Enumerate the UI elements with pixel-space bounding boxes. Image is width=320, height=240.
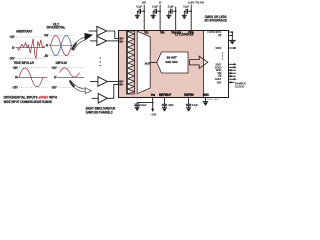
svg-text:–5V: –5V: [43, 54, 49, 58]
op-amp buffer A4: [92, 84, 119, 103]
svg-text:2.2µF: 2.2µF: [168, 6, 174, 9]
ground: [162, 107, 167, 109]
ground: [166, 14, 171, 16]
svg-text:IN0⁻: IN0⁻: [119, 40, 123, 43]
svg-text:47µF: 47µF: [168, 104, 174, 107]
svg-text:SAR ADC: SAR ADC: [166, 60, 179, 64]
svg-text:LVDS/CMOS: LVDS/CMOS: [207, 30, 221, 34]
swoosh arrow (bottom, waveforms to buffers): [69, 80, 92, 94]
svg-text:+10V: +10V: [9, 35, 15, 39]
wire A1 out to IN0+: [107, 31, 119, 38]
waveform panel FULLY DIFFERENTIAL: [43, 23, 74, 58]
svg-text:MUX: MUX: [145, 61, 151, 65]
supply 10V / pin VCC / capacitor 0.1uF: [135, 1, 149, 35]
pin SDO0: [216, 46, 237, 50]
svg-text:IN7⁻: IN7⁻: [119, 84, 123, 87]
svg-text:CNV: CNV: [217, 80, 222, 84]
wire A2 out to IN0-: [107, 40, 119, 42]
ground: [135, 14, 140, 16]
ADC block 18-BIT SAR ADC: [157, 52, 188, 73]
svg-text:ARBITRARY: ARBITRARY: [16, 29, 33, 33]
op-amp buffer A1: [89, 26, 119, 38]
svg-text:TRUE BIPOLAR: TRUE BIPOLAR: [14, 61, 35, 65]
data bus block arrow: [190, 56, 208, 68]
svg-text:SDO0: SDO0: [216, 46, 222, 50]
svg-text:0.1µF: 0.1µF: [136, 6, 142, 9]
pin SDO7: [216, 62, 237, 66]
T/H array strip: [127, 31, 135, 94]
svg-text:0.1µF: 0.1µF: [192, 104, 198, 107]
pin REFIN / capacitor 0.1uF: [184, 93, 198, 112]
svg-text:+5V: +5V: [44, 34, 49, 38]
svg-text:–10V: –10V: [9, 56, 16, 60]
dots SDO0..SDO7: [222, 52, 223, 59]
svg-text:UNIPOLAR: UNIPOLAR: [56, 61, 68, 65]
waveform panel ARBITRARY: [9, 29, 45, 60]
caption: eight simultaneous sampling channels: [86, 107, 116, 115]
pin SCKO: [215, 65, 237, 69]
svg-text:IN0⁺: IN0⁺: [119, 38, 123, 41]
pin BUSY: [215, 77, 236, 81]
ground: [229, 39, 236, 41]
svg-text:I/O INTERFACE: I/O INTERFACE: [205, 19, 227, 23]
channel dots: [100, 57, 101, 66]
svg-text:REFIN: REFIN: [184, 93, 194, 97]
svg-text:18-BIT: 18-BIT: [166, 56, 177, 60]
svg-text:GND: GND: [203, 93, 210, 97]
wire A3 out to IN7+: [107, 81, 118, 83]
ground: [151, 14, 156, 16]
pin VSS / capacitor 0.1uF / supply -10V: [134, 93, 156, 117]
caption: differential inputs: [4, 95, 58, 104]
op-amp buffer A3: [90, 77, 119, 87]
mux: [137, 31, 150, 93]
waveform panel UNIPOLAR: [51, 61, 85, 90]
ground: [186, 107, 191, 109]
supply 5V / pin VDD / capacitor 0.1uF: [151, 1, 165, 35]
wire mux to ADC: [150, 61, 157, 63]
svg-text:WIDE INPUT COMMON MODE RANGE: WIDE INPUT COMMON MODE RANGE: [4, 100, 52, 104]
label CMOS OR LVDS I/O INTERFACE: [205, 15, 227, 22]
svg-text:DIFFERENTIAL: DIFFERENTIAL: [47, 25, 66, 29]
IC U1 LTC2348-18 body: [119, 31, 229, 98]
svg-text:EIGHT SIMULTANEOUS: EIGHT SIMULTANEOUS: [86, 107, 116, 111]
waveform panel TRUE BIPOLAR: [12, 61, 48, 90]
pin GND / ground: [203, 93, 210, 106]
svg-text:CLOCK: CLOCK: [235, 84, 244, 88]
svg-text:0.1µF: 0.1µF: [152, 6, 158, 9]
svg-text:DIFFERENTIAL INPUTS ±VREF WITH: DIFFERENTIAL INPUTS ±VREF WITH: [4, 95, 58, 99]
pin SCKI: [216, 68, 236, 72]
svg-text:0.1µF: 0.1µF: [140, 104, 146, 107]
pin REFBUF / capacitor 47uF: [159, 93, 174, 112]
svg-text:0.1µF: 0.1µF: [183, 6, 189, 9]
svg-text:–10V: –10V: [51, 86, 58, 90]
pin VDDLBYP / capacitor 2.2uF: [166, 6, 181, 35]
-10V arrow: [151, 109, 154, 112]
pin CS (active low): [218, 34, 236, 78]
op-amp buffer A2: [90, 36, 119, 45]
pin LVDS/CMOS tied to ground: [207, 30, 235, 45]
svg-text:IN7⁺: IN7⁺: [119, 81, 123, 84]
svg-text:SAMPLING CHANNELS: SAMPLING CHANNELS: [86, 110, 113, 114]
ground: [182, 14, 187, 16]
pin CNV / SAMPLE CLOCK: [217, 80, 246, 88]
svg-text:REFBUF: REFBUF: [159, 93, 171, 97]
supply 1.8V TO 5V / pin OVDD / capacitor 0.1uF: [182, 1, 205, 35]
ground: [135, 106, 140, 108]
wire A4 out to IN7-: [107, 84, 118, 98]
swoosh arrow (top, waveforms to buffers): [71, 33, 93, 50]
pin SDI: [217, 71, 236, 75]
svg-text:+10V: +10V: [51, 66, 57, 70]
